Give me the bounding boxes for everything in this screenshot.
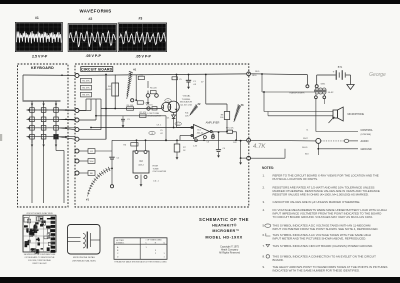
svg-text:PHYSICAL LOCATION OF PARTS.: PHYSICAL LOCATION OF PARTS. — [273, 177, 319, 181]
svg-text:WAVEFORMS: WAVEFORMS — [79, 9, 111, 14]
svg-text:RESISTOR VALUES ARE IN OHMS (K: RESISTOR VALUES ARE IN OHMS (K=1000, M=1… — [273, 193, 369, 197]
svg-text:R2 47K: R2 47K — [82, 88, 90, 90]
svg-text:SYMBOL: SYMBOL — [116, 243, 125, 245]
svg-text:.05 V P-P: .05 V P-P — [136, 54, 152, 58]
svg-text:1.: 1. — [263, 173, 266, 177]
svg-text:BT1: BT1 — [338, 66, 343, 69]
svg-text:R13 1K: R13 1K — [146, 105, 153, 107]
svg-text:INPUT METER AND THE PICTURES S: INPUT METER AND THE PICTURES SHOWN ABOVE… — [273, 237, 367, 241]
svg-text:OSCILLATOR: OSCILLATOR — [148, 115, 162, 118]
svg-text:2.1: 2.1 — [167, 101, 170, 103]
svg-text:INDICATED WITH THE SAME NUMBER: INDICATED WITH THE SAME NUMBER FOR THESE… — [273, 269, 361, 273]
svg-text:MICROPHONE DETAIL: MICROPHONE DETAIL — [73, 256, 96, 259]
svg-text:R5 220: R5 220 — [150, 88, 158, 90]
svg-text:Q1 417-234: Q1 417-234 — [180, 104, 192, 106]
svg-text:9.: 9. — [263, 265, 266, 269]
svg-text:BRN: BRN — [252, 75, 257, 77]
svg-text:TO CIRCUIT BOARD GROUND. VOLTA: TO CIRCUIT BOARD GROUND. VOLTAGES MAY VA… — [273, 215, 374, 219]
svg-text:# OF TIMES USED: # OF TIMES USED — [145, 240, 162, 242]
svg-text:THE ABOVE TABLE SHOWS EACH LET: THE ABOVE TABLE SHOWS EACH LETTER SYMBOL… — [114, 260, 167, 263]
svg-text:#3: #3 — [139, 16, 143, 20]
svg-text:54-82: 54-82 — [328, 92, 334, 94]
svg-text:CAPACITOR VALUES ARE IN µF UNL: CAPACITOR VALUES ARE IN µF UNLESS MARKED… — [273, 200, 361, 204]
svg-text:4.: 4. — [263, 208, 266, 212]
svg-text:.05 V P-P: .05 V P-P — [86, 54, 102, 58]
svg-text:INPUT VOLTMETER FROM THE POINT: INPUT VOLTMETER FROM THE POINT SHOWN. SE… — [273, 227, 379, 231]
svg-text:CIRCUIT BOARD: CIRCUIT BOARD — [81, 68, 113, 72]
svg-text:George: George — [369, 72, 386, 78]
svg-text:INDICATOR: INDICATOR — [180, 101, 192, 104]
svg-text:2.5 V P-P: 2.5 V P-P — [32, 54, 48, 58]
svg-text:GROUND: GROUND — [361, 148, 372, 151]
svg-text:TUNING: TUNING — [182, 99, 191, 101]
svg-text:NOTES:: NOTES: — [262, 166, 274, 170]
svg-text:KEYBOARD: KEYBOARD — [31, 66, 54, 70]
svg-text:CIRCUIT BOARD X-RAY VIEW: CIRCUIT BOARD X-RAY VIEW — [26, 212, 53, 215]
svg-text:WH: WH — [90, 161, 94, 163]
svg-text:MICROPHONE: MICROPHONE — [348, 113, 365, 116]
svg-text:.8: .8 — [151, 133, 153, 135]
svg-text:All Rights Reserved: All Rights Reserved — [219, 252, 241, 255]
svg-text:3.: 3. — [263, 200, 266, 204]
svg-text:4.7K: 4.7K — [106, 89, 111, 91]
svg-text:443-2: 443-2 — [138, 165, 144, 167]
svg-text:SW1: SW1 — [321, 83, 327, 85]
svg-text:WHT: WHT — [303, 138, 308, 140]
svg-text:TONE: TONE — [153, 168, 160, 170]
svg-text:SHOWN FROM THE COMPONENT SIDE: SHOWN FROM THE COMPONENT SIDE — [24, 254, 56, 256]
svg-text:OVER TO A LIGHT.: OVER TO A LIGHT. — [32, 262, 47, 265]
svg-text:AUDIO: AUDIO — [361, 140, 369, 143]
svg-text:BOARD.: BOARD. — [273, 258, 284, 262]
svg-text:BLK: BLK — [305, 154, 310, 156]
svg-text:GY: GY — [90, 151, 94, 153]
svg-text:6.: 6. — [263, 233, 266, 237]
svg-text:THIS SYMBOL INDICATES A CONNEC: THIS SYMBOL INDICATES A CONNECTION TO AN… — [273, 254, 377, 258]
svg-text:442-54: 442-54 — [197, 132, 204, 134]
svg-text:(STROBE): (STROBE) — [361, 134, 372, 136]
svg-text:CONTROL: CONTROL — [361, 129, 374, 132]
svg-text:#1: #1 — [35, 16, 39, 20]
svg-text:#2: #2 — [89, 17, 93, 21]
svg-text:THIS SYMBOL INDICATES CIRCUIT: THIS SYMBOL INDICATES CIRCUIT BOARD (CHA… — [273, 244, 374, 248]
svg-text:R1 47K: R1 47K — [82, 81, 90, 83]
svg-text:+: + — [333, 70, 335, 74]
svg-text:SHLD: SHLD — [302, 147, 308, 149]
svg-text:MODEL HD-19XX: MODEL HD-19XX — [205, 234, 242, 239]
svg-text:MICROBER™: MICROBER™ — [212, 229, 239, 233]
svg-text:7.: 7. — [263, 244, 266, 248]
svg-text:HEATHKIT®: HEATHKIT® — [212, 224, 237, 228]
svg-text:1.4V: 1.4V — [193, 146, 198, 148]
svg-text:FOIL SIDE, TURN THE PAGE: FOIL SIDE, TURN THE PAGE — [28, 259, 51, 262]
svg-text:8.: 8. — [263, 254, 266, 258]
svg-text:2.: 2. — [263, 185, 266, 189]
svg-text:4.7K: 4.7K — [253, 144, 266, 150]
svg-text:VISUAL: VISUAL — [183, 95, 192, 98]
svg-text:C11 .1: C11 .1 — [153, 181, 160, 183]
svg-text:SCHEMATIC OF THE: SCHEMATIC OF THE — [199, 217, 249, 222]
svg-text:OSCILLATOR: OSCILLATOR — [153, 170, 167, 173]
svg-text:(SHOWN ACTUAL SIZE): (SHOWN ACTUAL SIZE) — [72, 259, 95, 262]
svg-text:AMPLIFIER: AMPLIFIER — [206, 121, 220, 125]
svg-text:#1: #1 — [133, 68, 136, 72]
svg-text:OF THE BOARD. TO VIEW FROM THE: OF THE BOARD. TO VIEW FROM THE — [25, 256, 56, 259]
svg-text:R6 10K: R6 10K — [127, 105, 134, 107]
svg-text:R3 47K: R3 47K — [82, 95, 90, 97]
svg-text:1.4: 1.4 — [177, 124, 180, 126]
svg-text:HIGH: HIGH — [153, 166, 159, 168]
svg-text:RED: RED — [255, 71, 260, 73]
svg-text:R7 47K: R7 47K — [140, 112, 147, 114]
svg-text:LOW TONE: LOW TONE — [148, 113, 160, 115]
